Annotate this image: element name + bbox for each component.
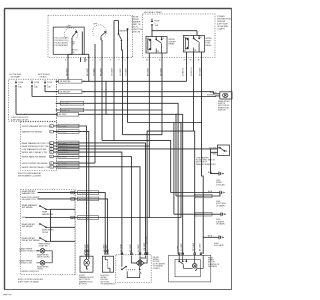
wire ign pin D down	[101, 58, 103, 141]
wire relay1 coil down	[148, 58, 150, 218]
svg-text:BL 18WT: BL 18WT	[79, 199, 87, 201]
svg-text:WIPER ON/OFF RELAY CTRL: WIPER ON/OFF RELAY CTRL	[22, 166, 51, 169]
svg-text:9: 9	[50, 143, 51, 145]
wire row y110	[57, 109, 162, 111]
svg-text:BL 18WT: BL 18WT	[106, 244, 108, 252]
row on/off relay ctrl	[53, 167, 140, 254]
wire row y103.3 to rear motor pin a	[57, 103, 179, 254]
svg-text:REAR WASHER MOTOR CTRL: REAR WASHER MOTOR CTRL	[22, 142, 52, 145]
svg-text:OF WINDSHIELD): OF WINDSHIELD)	[101, 284, 116, 286]
svg-text:BK/LB 18: BK/LB 18	[196, 196, 204, 198]
wire ign pin B blade down	[81, 58, 86, 63]
svg-text:LG/WT 18: LG/WT 18	[191, 68, 193, 76]
wiper motor symbol	[136, 260, 144, 267]
wire row y134.7 U-link	[123, 134, 163, 136]
wire ign pin A down	[67, 58, 69, 80]
svg-text:RD 18WT: RD 18WT	[62, 103, 71, 105]
svg-text:LG 18WT: LG 18WT	[120, 67, 122, 76]
svg-text:RD 18WT: RD 18WT	[146, 235, 148, 244]
row rear washer ctrl	[53, 142, 145, 144]
svg-text:WASHER SW: WASHER SW	[22, 192, 35, 195]
wire ign pin F down	[122, 58, 124, 135]
svg-text:BK 18WT: BK 18WT	[199, 242, 201, 251]
wire x176 to ground G301b	[175, 114, 177, 196]
svg-text:RELAY: RELAY	[206, 44, 213, 47]
row rear wiper washer sw	[38, 193, 106, 254]
row R1: label box + wire	[59, 80, 82, 84]
BCM label below	[18, 279, 44, 284]
row G62 long	[26, 123, 181, 218]
row rear wiper ctrl	[53, 145, 149, 147]
BCM delay on indicator	[37, 249, 53, 263]
ignition internal wires	[68, 21, 128, 58]
svg-text:WASHER SW SENSE: WASHER SW SENSE	[22, 131, 43, 134]
svg-text:BR/WT 18: BR/WT 18	[59, 146, 67, 148]
svg-text:7: 7	[50, 131, 51, 133]
wire fuse to relay tops	[152, 27, 198, 36]
junction block label	[11, 117, 29, 122]
svg-text:BR 18WT: BR 18WT	[130, 243, 132, 252]
svg-text:REAR WIPER MOTOR CTRL: REAR WIPER MOTOR CTRL	[22, 145, 50, 148]
ignition switch housing box	[53, 27, 84, 54]
svg-text:14: 14	[50, 152, 52, 154]
svg-text:FRONT WASHER MOTOR CTRL: FRONT WASHER MOTOR CTRL	[22, 125, 53, 128]
ignition switch dashed box	[48, 16, 133, 58]
HOT IN RUN labels	[10, 74, 51, 79]
row rear wiper sense	[51, 226, 76, 228]
svg-text:F: F	[119, 59, 120, 61]
wire row R3 to rear wiper switch pin2	[32, 95, 220, 98]
wire ign pin B down	[88, 54, 90, 81]
wire relay1 contact down	[161, 58, 163, 135]
svg-text:FRONT WIPER SW SENSE: FRONT WIPER SW SENSE	[22, 163, 48, 165]
fuse F5	[44, 81, 46, 89]
svg-text:BR 18WT: BR 18WT	[59, 132, 68, 134]
BCM pins right	[74, 193, 76, 218]
rear wiper motor box	[169, 255, 211, 282]
svg-text:85: 85	[146, 60, 148, 62]
wire row R2 to rear wiper switch	[45, 92, 220, 94]
row front washer ctrl	[53, 126, 86, 256]
svg-text:SW SENSE: SW SENSE	[22, 226, 33, 228]
svg-text:WASHER: WASHER	[119, 29, 128, 32]
svg-text:OR START: OR START	[11, 75, 22, 78]
front wiper pin squares	[121, 253, 148, 255]
relay pin numbers	[147, 37, 202, 53]
BCM switch bus	[50, 209, 56, 241]
svg-text:LG 18WT: LG 18WT	[181, 242, 183, 251]
svg-text:SWITCH): SWITCH)	[218, 110, 226, 112]
svg-text:RELAY: RELAY	[169, 43, 176, 46]
svg-text:ON IND CTRL: ON IND CTRL	[19, 263, 33, 265]
svg-text:31: 31	[50, 167, 52, 169]
svg-text:OF DASH): OF DASH)	[216, 223, 225, 226]
svg-text:(LEFT SIDE OF DASH): (LEFT SIDE OF DASH)	[18, 280, 39, 283]
internal wires	[122, 256, 147, 278]
cluster wires	[53, 126, 217, 256]
BCM internal: rear washer switch	[40, 206, 51, 210]
svg-text:22: 22	[50, 156, 52, 158]
wire fuse5 down	[44, 88, 46, 92]
svg-text:HOT AT ALL TIMES: HOT AT ALL TIMES	[144, 11, 162, 14]
svg-text:85: 85	[147, 51, 149, 53]
wire ign pin C down	[94, 58, 96, 164]
svg-text:DB 18WT: DB 18WT	[59, 126, 68, 128]
low washer fluid level switch	[218, 145, 230, 156]
svg-text:BK/DB 18: BK/DB 18	[196, 214, 204, 216]
park switch	[122, 267, 126, 270]
row delay sense	[51, 240, 76, 242]
power distribution center dashed box	[143, 14, 216, 58]
ground G300	[174, 213, 221, 215]
svg-text:BOTTLE): BOTTLE)	[79, 284, 87, 286]
park contact	[140, 267, 142, 273]
wire row y114.3 long	[16, 114, 183, 254]
BCM output rows	[25, 122, 181, 254]
svg-text:87: 87	[163, 38, 165, 40]
svg-text:WIPER PARK SW SENSE: WIPER PARK SW SENSE	[22, 156, 47, 159]
wire row y140.4 to ground G301a	[102, 140, 171, 192]
cluster pins	[50, 125, 54, 168]
PDC label	[217, 16, 232, 31]
wiper high/low relay	[184, 35, 205, 52]
svg-text:LOW WASHER FLUID IND: LOW WASHER FLUID IND	[22, 148, 47, 151]
svg-text:TN 18WT: TN 18WT	[93, 67, 95, 76]
fuse F8	[15, 81, 17, 89]
rotated wire labels below PDC	[148, 67, 202, 76]
svg-text:BR 18WT: BR 18WT	[148, 67, 150, 76]
wire relay2 85 down to front wiper	[147, 52, 193, 254]
rotary switch arc 2	[93, 25, 107, 36]
svg-text:(LIFTGATE): (LIFTGATE)	[214, 244, 224, 247]
cluster row labels	[22, 125, 53, 169]
svg-text:DELAY SW SENSE: DELAY SW SENSE	[22, 239, 41, 242]
svg-text:LG 18WT: LG 18WT	[138, 243, 140, 252]
svg-text:SWITCH): SWITCH)	[132, 32, 141, 34]
svg-text:DB 18BL/WT: DB 18BL/WT	[60, 92, 71, 94]
svg-text:COMPT): COMPT)	[217, 29, 225, 31]
svg-text:30: 30	[50, 163, 52, 165]
svg-text:OR ACC: OR ACC	[40, 75, 48, 78]
border frame	[5, 9, 232, 290]
rear wiper switch component	[220, 92, 232, 99]
wire relay2 87 down to rear motor	[202, 52, 204, 254]
row R2: label box + wire	[59, 90, 82, 94]
row rear washer sense	[51, 208, 76, 210]
svg-text:BR 18WT: BR 18WT	[59, 156, 68, 158]
svg-text:86: 86	[184, 37, 186, 39]
instrument cluster dashed box	[21, 122, 57, 170]
svg-text:10: 10	[50, 146, 52, 148]
svg-text:GY 18WT: GY 18WT	[111, 67, 113, 76]
front washer motor box	[80, 250, 93, 272]
rotated wire labels above bottom boxes	[85, 235, 201, 252]
svg-text:LG/DB: LG/DB	[178, 245, 180, 251]
svg-text:COMPT): COMPT)	[153, 268, 160, 270]
BCM internal: rear wiper on switch	[40, 224, 51, 228]
svg-text:DB 18WT: DB 18WT	[87, 67, 89, 76]
ground G301	[171, 193, 220, 197]
svg-text:INSTRUMENT CLUSTER: INSTRUMENT CLUSTER	[18, 175, 42, 177]
svg-text:wiper sys: wiper sys	[3, 294, 11, 296]
svg-text:B: B	[86, 59, 87, 61]
key position text	[55, 38, 69, 48]
svg-text:BR 18WT: BR 18WT	[100, 67, 102, 76]
cluster label below	[18, 172, 42, 178]
wire ign pin E down	[113, 58, 115, 141]
svg-text:BR 18WT: BR 18WT	[87, 243, 89, 252]
row low washer fluid	[53, 148, 217, 150]
svg-text:P4-IGN/START: P4-IGN/START	[55, 44, 69, 47]
BCM on indicator	[37, 261, 53, 266]
row hi/lo relay ctrl	[53, 152, 122, 254]
wire x173.9 to ground G300	[173, 123, 175, 215]
left connector dashed line	[56, 79, 58, 170]
fuse F9	[151, 19, 153, 28]
svg-text:85: 85	[184, 50, 186, 52]
svg-text:30: 30	[195, 50, 197, 52]
svg-text:WIPER HI/LO RELAY CTRL: WIPER HI/LO RELAY CTRL	[22, 151, 48, 154]
svg-text:WASHER RESERVOIR): WASHER RESERVOIR)	[196, 163, 216, 166]
svg-text:VT 18WT: VT 18WT	[79, 193, 87, 195]
svg-text:86: 86	[147, 38, 149, 40]
svg-text:BR 18WT: BR 18WT	[59, 114, 68, 116]
svg-text:WT/DB B: WT/DB B	[207, 94, 215, 96]
svg-text:DB 18WT: DB 18WT	[66, 67, 68, 76]
wire row R1	[58, 77, 187, 114]
BCM internal: rear wiper delay switch	[40, 238, 51, 242]
svg-text:GY 18WT: GY 18WT	[120, 243, 122, 252]
svg-text:DB 18WT: DB 18WT	[160, 67, 162, 76]
svg-text:WT 18DB: WT 18DB	[193, 242, 195, 251]
wire ign pin G down	[127, 58, 129, 123]
svg-text:LIFTGATE): LIFTGATE)	[208, 265, 217, 268]
svg-text:DELAY SW: DELAY SW	[39, 245, 48, 248]
pin ticks on ignition connector	[68, 57, 128, 59]
svg-text:30: 30	[190, 60, 192, 62]
svg-text:2: 2	[50, 126, 51, 128]
svg-text:DB 18WT/O: DB 18WT/O	[59, 152, 69, 154]
svg-text:WIPER CONTROLS: WIPER CONTROLS	[22, 271, 40, 273]
svg-text:12: 12	[50, 149, 52, 151]
svg-text:BR/WT 18: BR/WT 18	[62, 110, 70, 112]
wiper on/off relay	[146, 36, 167, 53]
wire row y121.9	[128, 122, 202, 124]
ground G303 liftgate	[203, 236, 219, 238]
svg-text:E: E	[110, 59, 111, 61]
inner labels	[71, 41, 78, 54]
multifunction switch label	[132, 17, 143, 34]
BCM right connector dashed	[74, 190, 76, 275]
washer switch blade	[118, 34, 122, 43]
pin letters below ignition connector	[65, 58, 199, 61]
svg-text:87: 87	[200, 37, 202, 39]
svg-text:GY/RD 18: GY/RD 18	[59, 149, 67, 151]
electric wiper de-icer box	[102, 250, 113, 272]
svg-text:87: 87	[184, 60, 186, 62]
svg-text:TN 18WT: TN 18WT	[125, 67, 127, 76]
svg-text:SW SENSE: SW SENSE	[22, 207, 33, 209]
row front wiper sw sense	[53, 162, 95, 164]
svg-text:DE-ICER CTRL: DE-ICER CTRL	[22, 199, 37, 201]
wire fuse4 down	[31, 88, 33, 96]
wire rear washer ctrl corner down	[145, 143, 147, 254]
junction block dashed box	[9, 79, 57, 121]
svg-text:30: 30	[157, 51, 159, 53]
svg-text:TN 18WT: TN 18WT	[59, 163, 68, 165]
svg-text:WT 18DB: WT 18DB	[200, 67, 202, 76]
svg-text:D PILLAR): D PILLAR)	[216, 183, 225, 186]
rotary switch arc 1	[64, 28, 78, 40]
svg-text:WASHER SW: WASHER SW	[42, 213, 54, 216]
BCM output label boxes	[78, 191, 99, 220]
row de-icer ctrl	[38, 199, 108, 254]
svg-text:86: 86	[198, 60, 200, 62]
svg-text:LG/BK 18: LG/BK 18	[183, 68, 185, 76]
relay output stubs	[149, 53, 162, 58]
row washer sw sense	[53, 132, 88, 257]
rear wiper pin squares	[178, 253, 201, 255]
fuse F4	[31, 81, 33, 89]
ground G302	[211, 152, 220, 173]
svg-text:ON SW: ON SW	[42, 232, 48, 234]
svg-text:BR 18LG: BR 18LG	[59, 167, 67, 169]
body control module dashed box	[21, 190, 76, 275]
connector pin ticks	[56, 81, 58, 114]
svg-text:DELAY ON IND: DELAY ON IND	[37, 256, 50, 259]
svg-text:30: 30	[159, 60, 161, 62]
row park sw sense	[53, 157, 131, 254]
front wiper motor dashed box	[116, 255, 151, 283]
svg-text:(LEFT END OF I/P): (LEFT END OF I/P)	[11, 119, 29, 121]
wire fuse8 down to row	[15, 88, 17, 114]
svg-text:BL/VT 18WT: BL/VT 18WT	[79, 217, 90, 219]
cluster label boxes	[58, 124, 79, 168]
BCM row labels	[19, 190, 40, 265]
rotated wire labels below ignition	[66, 67, 127, 76]
svg-text:DB 18WT/BK: DB 18WT/BK	[60, 81, 71, 83]
svg-text:OF DASH): OF DASH)	[216, 204, 225, 207]
svg-text:BL 18WT: BL 18WT	[59, 143, 67, 145]
svg-text:BK/TN A: BK/TN A	[210, 146, 218, 149]
